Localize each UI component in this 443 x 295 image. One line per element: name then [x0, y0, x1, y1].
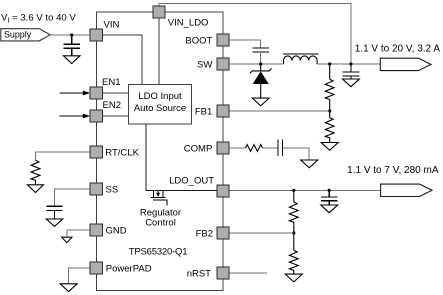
pin nRST — [217, 267, 229, 279]
ground (RT/CLK resistor) — [28, 185, 44, 193]
svg-text:LDO_OUT: LDO_OUT — [169, 175, 214, 186]
pin PowerPAD — [90, 262, 102, 274]
wire top rail VIN_LDO to buck output — [159, 3, 351, 64]
node LDO divider junction — [292, 189, 295, 192]
wire VIN internal to LDO auto source box — [103, 35, 142, 85]
pin EN2 — [90, 110, 102, 122]
resistor FB2 upper — [289, 190, 298, 233]
node junction at input cap — [70, 33, 73, 36]
resistor FB1 lower — [325, 111, 334, 142]
pin SS — [90, 183, 102, 195]
capacitor (soft-start) — [46, 206, 62, 219]
ground (PowerPAD) — [60, 284, 77, 292]
resistor FB2 lower — [289, 233, 298, 274]
ground (LDO output cap) — [321, 205, 338, 213]
capacitor buck output — [343, 64, 360, 79]
svg-text:PowerPAD: PowerPAD — [106, 264, 152, 275]
svg-text:FB1: FB1 — [195, 107, 212, 118]
pin SW — [217, 58, 229, 70]
capacitor bootstrap — [253, 48, 270, 52]
svg-text:Auto Source: Auto Source — [134, 103, 186, 114]
LDO Input Auto Source block — [129, 85, 192, 125]
node buck output junction 2 — [349, 62, 352, 65]
input capacitor — [64, 35, 81, 56]
LDO output flag — [381, 184, 432, 196]
svg-text:EN2: EN2 — [103, 100, 121, 111]
node FB2 junction — [292, 231, 295, 234]
wire FB2 to divider — [229, 232, 294, 234]
svg-text:VI = 3.6 V to 40 V: VI = 3.6 V to 40 V — [1, 12, 76, 24]
wire nRST stub — [229, 272, 267, 274]
pin LDO_OUT — [217, 185, 229, 197]
capacitor LDO output — [321, 190, 338, 205]
node buck output junction 1 — [328, 62, 331, 65]
IC U1 TPS65320-Q1 outline — [96, 12, 223, 291]
wire LDO box to pass FET and LDO_OUT — [146, 124, 217, 190]
wire RT/CLK to resistor — [36, 152, 92, 160]
resistor COMP — [246, 145, 263, 152]
node SW junction — [259, 62, 262, 65]
svg-text:SW: SW — [197, 60, 212, 71]
svg-text:1.1 V to 7 V, 280 mA: 1.1 V to 7 V, 280 mA — [347, 165, 439, 176]
resistor (RT/CLK timing) — [31, 160, 40, 184]
EN2 input arrow — [60, 114, 91, 119]
ground (FB1 divider) — [321, 143, 338, 151]
pin FB2 — [217, 227, 229, 239]
ground (input cap) — [64, 56, 81, 64]
svg-text:VIN_LDO: VIN_LDO — [168, 18, 209, 29]
ground (soft-start cap) — [46, 219, 62, 226]
svg-text:RT/CLK: RT/CLK — [105, 148, 139, 159]
Supply input flag — [1, 29, 50, 41]
ground (GND pin, small) — [62, 237, 72, 242]
pin FB1 — [217, 105, 229, 117]
wire bootstrap cap to SW node — [260, 52, 262, 64]
pin RT/CLK — [90, 146, 102, 158]
svg-text:Supply: Supply — [4, 30, 32, 40]
wire COMP network — [229, 147, 246, 149]
wire GND to ground — [67, 230, 91, 237]
wire LDO_OUT output line — [229, 189, 381, 191]
ground (COMP) — [301, 160, 318, 168]
wire BOOT to bootstrap cap — [229, 40, 261, 48]
ground (buck output cap) — [343, 79, 360, 87]
pin VIN — [90, 29, 102, 41]
transistor pass FET (regulator control) — [151, 190, 167, 205]
wire COMP cap to ground — [282, 148, 309, 160]
wire EN2 internal — [103, 115, 129, 117]
capacitor COMP — [278, 140, 282, 157]
svg-text:BOOT: BOOT — [185, 36, 212, 47]
node LDO cap junction — [328, 189, 331, 192]
ground (zener) — [252, 98, 269, 106]
svg-text:TPS65320-Q1: TPS65320-Q1 — [129, 246, 188, 257]
svg-text:VIN: VIN — [104, 19, 120, 30]
svg-text:SS: SS — [106, 185, 119, 196]
wire SS to capacitor — [55, 189, 92, 206]
pin COMP — [217, 142, 229, 154]
svg-text:EN1: EN1 — [102, 77, 120, 88]
pin GND — [90, 224, 102, 236]
pin EN1 — [90, 87, 102, 99]
wire FB1 to divider — [229, 110, 330, 112]
ground (FB2 divider) — [285, 274, 302, 282]
diode catch zener — [250, 64, 272, 98]
svg-text:LDO Input: LDO Input — [138, 91, 182, 102]
pin VIN_LDO — [153, 6, 165, 18]
svg-text:nRST: nRST — [187, 269, 211, 280]
pin BOOT — [217, 34, 229, 46]
wire supply to VIN — [50, 34, 91, 36]
wire VIN_LDO internal to LDO auto source box — [158, 18, 160, 85]
svg-text:FB2: FB2 — [196, 229, 213, 240]
wire EN1 internal — [103, 92, 129, 94]
wire COMP resistor to cap — [263, 147, 278, 149]
svg-text:GND: GND — [106, 226, 127, 237]
node FB1 junction — [328, 109, 331, 112]
svg-text:1.1 V to 20 V, 3.2 A: 1.1 V to 20 V, 3.2 A — [355, 43, 441, 54]
EN1 input arrow — [60, 91, 91, 96]
resistor FB1 upper — [325, 64, 334, 111]
wire SW output line — [229, 63, 284, 65]
svg-text:COMP: COMP — [184, 144, 213, 155]
inductor L1 — [283, 54, 319, 64]
buck output flag — [380, 58, 431, 70]
svg-text:Control: Control — [145, 217, 176, 228]
wire PowerPAD to ground — [69, 268, 91, 284]
